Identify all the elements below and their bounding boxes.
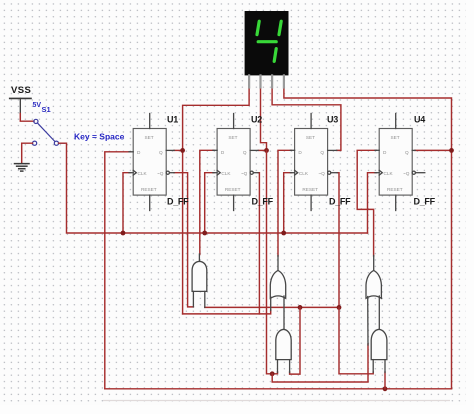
junction U2 Q xyxy=(264,148,269,153)
svg-text:Key = Space: Key = Space xyxy=(74,132,125,142)
svg-text:D_FF: D_FF xyxy=(252,197,274,207)
display pin 2 xyxy=(259,75,261,87)
wire gate row horizontal U1 ~Q / U3 ~Q net xyxy=(205,306,339,308)
wire U2 Q net down to gate G4 input A xyxy=(267,150,278,373)
faint window edge line at bottom xyxy=(103,400,450,402)
svg-text:Q: Q xyxy=(159,150,163,155)
svg-text:D_FF: D_FF xyxy=(329,197,351,207)
flip-flop U1 xyxy=(129,114,174,211)
power symbol VSS xyxy=(10,98,31,113)
wire U1 D net from bottom bus xyxy=(105,152,130,389)
wire U4 CLK riser from rail end xyxy=(368,173,377,233)
wire right edge riser U4 Q to display pin4 xyxy=(284,87,452,389)
junction branch to G4 input B xyxy=(298,305,303,310)
wire branch to gate G3 input A xyxy=(272,344,368,382)
display segment c xyxy=(274,49,276,62)
junction U1 Q xyxy=(180,148,185,153)
flip-flop U3 xyxy=(290,114,337,211)
svg-text:SET: SET xyxy=(228,135,237,140)
wire clock rail xyxy=(123,232,368,234)
wire display pin2 to U2 Q xyxy=(261,87,267,150)
svg-text:D_FF: D_FF xyxy=(414,197,436,207)
gate G2 OR xyxy=(270,256,285,330)
svg-text:RESET: RESET xyxy=(387,187,403,192)
svg-text:Q: Q xyxy=(405,150,409,155)
svg-text:RESET: RESET xyxy=(302,187,318,192)
svg-text:U4: U4 xyxy=(414,115,425,125)
wire VSS to switch S1 pole xyxy=(20,114,34,122)
wire U2 Q stub xyxy=(258,149,266,151)
wire switch output down to clock rail xyxy=(59,143,123,233)
svg-text:S1: S1 xyxy=(42,105,51,114)
svg-text:Q: Q xyxy=(320,150,324,155)
switch S1 xyxy=(33,119,65,145)
junction U2 CLK on rail xyxy=(202,231,207,236)
gate G1 AND xyxy=(192,254,207,307)
junction U1 CLK on rail xyxy=(121,231,126,236)
svg-text:CLK: CLK xyxy=(384,171,394,176)
display pin 3 xyxy=(271,75,273,87)
svg-text:~Q: ~Q xyxy=(403,171,410,176)
flip-flop U2 xyxy=(213,114,258,211)
wire U2 CLK riser xyxy=(205,173,214,233)
wire display pin1 to U1 Q xyxy=(183,87,250,314)
flip-flop U4 xyxy=(375,114,425,211)
junction U3 ~Q net xyxy=(337,305,342,310)
gate G5 AND xyxy=(371,329,387,372)
gate G3 OR xyxy=(366,256,381,346)
svg-text:Q: Q xyxy=(243,150,247,155)
svg-text:U1: U1 xyxy=(167,115,178,125)
svg-text:CLK: CLK xyxy=(299,171,309,176)
wire U1 Q net long horizontal to gate G2 input A xyxy=(183,310,271,314)
svg-text:CLK: CLK xyxy=(221,171,231,176)
svg-text:SET: SET xyxy=(145,135,154,140)
ground xyxy=(15,164,30,172)
wire bottom bus xyxy=(105,388,452,390)
wire gate G3 output to U4 D xyxy=(357,150,376,256)
svg-text:~Q: ~Q xyxy=(318,171,325,176)
svg-text:~Q: ~Q xyxy=(241,171,248,176)
display pin 4 xyxy=(283,75,285,87)
junction gate G5 input on bottom bus xyxy=(383,386,388,391)
svg-text:D_FF: D_FF xyxy=(167,197,189,207)
wire U1 CLK riser xyxy=(123,173,130,233)
seven-segment display U5 body xyxy=(245,11,289,75)
svg-text:CLK: CLK xyxy=(138,171,148,176)
wire gate G5 input B from bottom bus xyxy=(384,372,386,389)
wire switch throw to ground xyxy=(22,143,33,162)
svg-text:RESET: RESET xyxy=(225,187,241,192)
wire gate G1 output to U2 D xyxy=(200,150,214,254)
wire display pin3 to U3 Q xyxy=(272,87,341,150)
svg-text:SET: SET xyxy=(391,135,400,140)
wire U3 ~Q down xyxy=(337,173,339,308)
svg-text:RESET: RESET xyxy=(141,187,157,192)
display segment f xyxy=(257,21,259,34)
junction G4 input A branch xyxy=(270,371,275,376)
svg-text:U3: U3 xyxy=(327,115,338,125)
gate G4 AND xyxy=(276,329,291,372)
wire U4 Q to right riser xyxy=(415,149,452,151)
wire U3 ~Q net down to gate G5 input A xyxy=(339,307,373,373)
wire gate G2 output to U3 D xyxy=(278,150,292,256)
wire U1 Q stub to riser xyxy=(174,149,183,151)
junction U3 CLK on rail xyxy=(281,231,286,236)
svg-text:~Q: ~Q xyxy=(157,171,164,176)
junction U4 Q xyxy=(449,148,454,153)
svg-text:VSS: VSS xyxy=(11,85,31,96)
svg-text:5V: 5V xyxy=(33,102,42,109)
display segment b xyxy=(279,21,281,34)
svg-text:U2: U2 xyxy=(251,115,262,125)
svg-text:SET: SET xyxy=(306,135,315,140)
wire U2 ~Q down to gate G2 input A xyxy=(258,173,259,314)
display segment g xyxy=(258,40,276,43)
display pin 1 xyxy=(248,75,250,87)
wire U1 ~Q down to gate row horizontal xyxy=(174,173,193,307)
wire branch down to gate G4 input B xyxy=(290,307,300,374)
wire U3 CLK riser xyxy=(284,173,292,233)
